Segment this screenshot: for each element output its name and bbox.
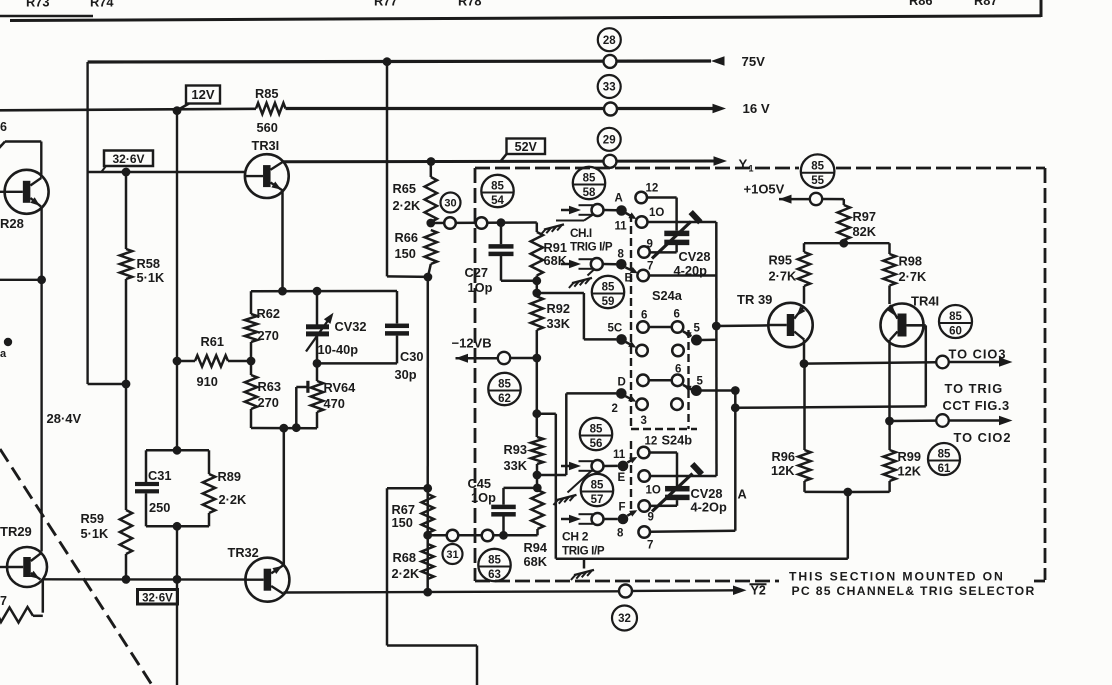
svg-text:C45: C45	[468, 476, 491, 491]
resistor R93	[531, 437, 543, 464]
resistor R66	[425, 230, 437, 264]
svg-text:12K: 12K	[771, 463, 795, 478]
svg-text:56: 56	[590, 438, 603, 450]
resistor R58	[120, 249, 132, 279]
wire 10a	[648, 221, 717, 224]
wire R96 bottom	[803, 481, 806, 492]
svg-text:TRIG I/P: TRIG I/P	[570, 241, 613, 254]
svg-text:TO CIO3: TO CIO3	[949, 347, 1007, 362]
svg-text:TO CIO2: TO CIO2	[954, 430, 1012, 445]
svg-text:85: 85	[491, 181, 504, 193]
svg-text:R92: R92	[547, 301, 570, 316]
resistor R63	[245, 375, 257, 409]
transistor TR29	[7, 547, 47, 587]
wire bottom jog down	[476, 646, 479, 685]
svg-text:11: 11	[615, 221, 628, 233]
svg-text:85: 85	[938, 449, 951, 461]
TR29 collector diagonal	[31, 553, 41, 561]
svg-text:CH.I: CH.I	[570, 226, 592, 240]
svg-text:C30: C30	[400, 349, 423, 364]
wire R98 top	[888, 243, 891, 254]
arrow +105V (pointing left)	[779, 195, 792, 204]
section border top-left	[0, 15, 93, 18]
resistor R62	[245, 314, 257, 342]
svg-text:82K: 82K	[853, 224, 877, 239]
svg-text:5: 5	[694, 323, 701, 335]
capacitor C30 plates	[385, 324, 409, 329]
dashed box bottom edge	[475, 580, 779, 583]
svg-text:RV64: RV64	[324, 380, 357, 395]
RV64 tap bar	[306, 381, 309, 393]
svg-text:12: 12	[645, 436, 658, 448]
circled 29	[598, 128, 621, 151]
wire 32.6V line to TR31 base	[88, 171, 245, 173]
svg-text:2·2K: 2·2K	[392, 566, 420, 581]
wire C31 box top	[146, 449, 209, 452]
svg-text:63: 63	[488, 569, 501, 581]
svg-text:TR29: TR29	[0, 524, 32, 539]
junction bus B top	[731, 386, 740, 395]
CH1 input arrow A	[561, 209, 569, 212]
circled 32	[612, 606, 637, 631]
svg-text:CV32: CV32	[335, 319, 367, 334]
svg-text:R98: R98	[899, 254, 922, 269]
svg-text:TR 39: TR 39	[737, 292, 772, 307]
svg-text:R89: R89	[218, 469, 241, 484]
wire R94 bottom	[536, 529, 539, 535]
circled 31	[443, 544, 463, 564]
svg-text:TR3I: TR3I	[252, 138, 280, 153]
wire stub y280	[0, 279, 42, 281]
wire TR28 collector	[40, 142, 42, 178]
svg-text:33K: 33K	[547, 316, 571, 331]
connector circle 30a	[444, 217, 456, 229]
TR32 emitter arrowhead	[272, 566, 282, 574]
TR31 emitter diagonal	[271, 183, 283, 191]
section border right vertical	[1040, 0, 1043, 17]
svg-text:61: 61	[938, 463, 951, 475]
resistor R94	[531, 490, 543, 529]
TR41 collector diagonal	[890, 332, 898, 340]
svg-text:R28: R28	[0, 216, 24, 231]
wire 7b	[650, 531, 735, 532]
wire R66 bottom	[428, 264, 431, 277]
capacitor C45 plates	[491, 505, 516, 510]
svg-text:5C: 5C	[608, 323, 623, 335]
svg-text:11: 11	[613, 449, 626, 461]
svg-text:F: F	[619, 502, 626, 514]
ref circle 85/58	[573, 167, 605, 199]
svg-text:R63: R63	[258, 379, 281, 394]
svg-text:E: E	[618, 472, 626, 484]
TR32 emitter diagonal (up)	[271, 565, 283, 573]
svg-text:1O: 1O	[649, 207, 664, 219]
svg-text:75V: 75V	[742, 54, 766, 69]
switch circle row2 left	[636, 345, 648, 357]
svg-text:R61: R61	[201, 334, 224, 349]
svg-text:7: 7	[647, 540, 653, 552]
svg-text:32·6V: 32·6V	[142, 592, 173, 604]
switch circle 7b	[638, 526, 650, 538]
junction +105 rail	[839, 239, 848, 248]
terminal circle TO C102	[936, 414, 949, 427]
svg-text:2·2K: 2·2K	[219, 492, 247, 507]
junction y428 TR32 emitter	[279, 424, 288, 433]
wire E-feed right	[537, 412, 556, 415]
circled 30	[441, 193, 461, 213]
svg-text:57: 57	[591, 494, 604, 506]
wiper 5b	[683, 385, 691, 390]
wire TO C102 right	[949, 419, 1000, 422]
svg-text:6: 6	[675, 364, 681, 376]
wire R97 bottom	[843, 240, 846, 243]
switch circle 7a	[637, 270, 649, 282]
wire D-feed up	[565, 393, 568, 475]
transistor TR31	[245, 154, 289, 198]
junction y291 CV32	[313, 287, 322, 296]
switch circle row3 right	[672, 375, 684, 387]
wiper F-9	[627, 512, 635, 516]
svg-text:55: 55	[811, 175, 824, 187]
svg-text:60: 60	[949, 326, 962, 338]
CH1 ground B wire	[588, 270, 595, 276]
wire R91 top corner	[536, 223, 539, 233]
junction emitter-resistor return	[843, 488, 852, 497]
wire C31 box bottom	[146, 525, 209, 528]
voltage label 32.6V box	[104, 151, 153, 167]
wire 10b	[650, 475, 717, 478]
wire x177 lower drop	[176, 526, 178, 685]
svg-text:R99: R99	[898, 449, 921, 464]
junction R93 bottom	[533, 471, 542, 480]
junction R66 bottom	[424, 273, 433, 282]
CH1 input circle A	[592, 204, 604, 216]
switch circle 12a	[635, 192, 647, 204]
ref circle 85/61	[928, 443, 960, 475]
wire 12a	[647, 196, 677, 199]
chain line S24a right	[687, 330, 689, 429]
wire E link	[604, 465, 618, 468]
wire connector 30 line	[431, 221, 537, 224]
wire B link	[603, 263, 616, 266]
junction y291 TR31 emitter	[278, 287, 287, 296]
switch circle 9b	[638, 500, 650, 512]
wire R62 top	[250, 291, 253, 314]
svg-text:R85: R85	[255, 86, 278, 101]
svg-text:12K: 12K	[898, 464, 922, 479]
CH1 input screen lines A	[579, 204, 594, 206]
svg-text:6: 6	[0, 120, 7, 134]
svg-text:R59: R59	[81, 511, 104, 526]
svg-text:58: 58	[583, 187, 596, 199]
wire F link	[604, 518, 618, 521]
svg-text:32: 32	[618, 613, 631, 625]
CH2 input circle E	[592, 460, 604, 472]
wire TR29 emitter drop	[42, 579, 45, 612]
svg-text:10-40p: 10-40p	[318, 342, 359, 357]
wire C feed	[537, 292, 584, 295]
switch circle 10a	[636, 216, 648, 228]
capacitor C27 plates	[489, 244, 514, 249]
resistor stub top-left (cut)	[0, 141, 5, 147]
junction 12V rail	[173, 106, 182, 115]
contact dot C	[616, 334, 627, 345]
wire R61 left	[177, 360, 195, 363]
svg-text:5·1K: 5·1K	[137, 270, 165, 285]
wire TO C103	[804, 362, 936, 363]
svg-text:28: 28	[603, 35, 616, 47]
svg-text:2·2K: 2·2K	[393, 198, 421, 213]
svg-text:85: 85	[591, 480, 604, 492]
wire R58 top	[125, 172, 128, 249]
resistor R85	[256, 103, 286, 114]
svg-text:CH 2: CH 2	[562, 530, 589, 544]
terminal circle 33 on 16V rail	[604, 103, 617, 116]
wire TO C103 right	[949, 361, 1000, 364]
junction TR39 collector node	[800, 359, 809, 368]
contact dot E	[618, 461, 629, 472]
junction Y2 line at R68	[423, 588, 432, 597]
junction R65-R66 connector node	[426, 219, 435, 228]
wire 52V-Y1 rail	[284, 160, 715, 164]
circled 33	[598, 75, 621, 98]
svg-text:−12VB: −12VB	[452, 336, 492, 351]
resistor R92	[531, 297, 543, 331]
wire 5a link	[702, 339, 717, 342]
wiper D	[626, 396, 634, 400]
contact dot 5b	[691, 385, 702, 396]
wire 16V rail right of R85	[286, 107, 714, 110]
transistor TR39	[768, 303, 812, 347]
svg-text:8: 8	[618, 249, 625, 261]
wire 75V drop corner to R58 chain	[88, 383, 126, 385]
svg-text:THIS SECTION MOUNTED ON: THIS SECTION MOUNTED ON	[789, 570, 1005, 584]
svg-text:3: 3	[641, 415, 647, 427]
svg-text:R93: R93	[504, 442, 527, 457]
svg-text:TO TRIG: TO TRIG	[945, 381, 1004, 396]
svg-text:R96: R96	[772, 449, 795, 464]
junction 32.6V line at R58	[122, 168, 131, 177]
wiper 5a	[683, 331, 692, 336]
svg-text:30: 30	[444, 198, 456, 210]
wire bottom return line	[556, 557, 848, 560]
wire E-feed down	[555, 414, 558, 559]
dashed box right edge	[1044, 168, 1047, 580]
svg-text:B: B	[625, 273, 633, 285]
svg-text:R68: R68	[393, 550, 416, 565]
junction left rail y280	[37, 275, 46, 284]
wire CV32 bottom	[316, 336, 319, 381]
wire -12VB left	[456, 357, 499, 360]
connector circle 31b	[482, 530, 494, 542]
wire C30 link	[317, 362, 397, 365]
wire R96 top	[803, 364, 806, 450]
wire +105V right	[822, 198, 844, 201]
contact dot A	[616, 205, 627, 216]
CH2 input circle F	[592, 513, 604, 525]
svg-text:33: 33	[603, 82, 616, 94]
junction bus B TR41 base	[731, 403, 740, 412]
CH1 input circle B	[591, 258, 603, 270]
wire 12V rail left of R85	[0, 109, 256, 111]
svg-text:33K: 33K	[504, 458, 528, 473]
wire R67 branch corner	[387, 487, 428, 490]
svg-text:16 V: 16 V	[743, 101, 770, 116]
svg-text:1O: 1O	[646, 485, 661, 497]
svg-text:2·7K: 2·7K	[769, 269, 797, 284]
arrow -12VB (pointing left)	[456, 354, 469, 363]
wire C30 top	[396, 291, 399, 323]
switch circle 12b	[638, 447, 650, 459]
svg-text:250: 250	[149, 500, 170, 515]
svg-text:6: 6	[641, 310, 647, 322]
section border top	[10, 16, 1041, 21]
junction TR41 emitter node	[885, 417, 894, 426]
RV64 tap wire	[296, 386, 308, 389]
svg-text:150: 150	[395, 246, 416, 261]
wire C31 left lower	[145, 494, 148, 527]
wire x428 long drop	[426, 277, 429, 592]
junction bus TR39 base	[712, 322, 721, 331]
svg-text:D: D	[618, 377, 626, 389]
circled 28	[598, 28, 621, 51]
wire TO C102	[890, 419, 937, 422]
voltage label 32.6V box lower	[138, 590, 178, 605]
wire x387 lower drop	[386, 488, 389, 645]
switch circle row2 right	[672, 345, 684, 357]
voltage label 12V box	[186, 86, 220, 104]
wire 5b link	[702, 389, 736, 392]
svg-text:1Op: 1Op	[468, 280, 493, 295]
terminal circle +105V	[810, 193, 822, 205]
terminal circle 28 on 75V rail	[604, 55, 617, 68]
terminal circle 32 on Y2 line	[619, 585, 632, 598]
svg-text:270: 270	[258, 395, 279, 410]
wire 12b	[650, 451, 678, 454]
svg-text:a: a	[0, 348, 7, 360]
ref circle 85/56	[580, 418, 612, 450]
wire 7a	[649, 274, 716, 277]
wire R92-R93 link	[536, 358, 539, 437]
wire x387 upper drop	[386, 62, 389, 277]
svg-text:C31: C31	[148, 468, 171, 483]
switch circle 10b	[638, 470, 650, 482]
capacitor C31 plates	[135, 482, 159, 486]
connector circle 31a	[447, 530, 459, 542]
svg-text:6: 6	[674, 309, 680, 321]
svg-text:2·7K: 2·7K	[899, 269, 927, 284]
switch circle 9a	[638, 246, 650, 258]
TR28 collector diagonal	[30, 178, 41, 186]
resistor R59	[120, 510, 132, 554]
svg-text:R65: R65	[393, 181, 416, 196]
ref circle 85/59	[592, 276, 624, 308]
wire CV28a bottom	[675, 245, 678, 253]
junction C31 top	[173, 446, 182, 455]
transistor TR32	[245, 558, 289, 602]
CV28b trimmer arrow	[652, 474, 693, 512]
junction R91 bottom	[532, 276, 541, 285]
junction x177 at R61	[173, 357, 182, 366]
resistor R96	[798, 450, 810, 481]
ref circle 85/62	[488, 373, 520, 405]
terminal circle TO C103	[936, 356, 949, 369]
svg-text:PC 85 CHANNEL& TRIG SELECTOR: PC 85 CHANNEL& TRIG SELECTOR	[792, 584, 1036, 598]
wire D-feed to contact	[566, 392, 616, 395]
svg-text:Y2: Y2	[751, 584, 766, 598]
CH2 input arrow F	[561, 518, 569, 521]
svg-text:29: 29	[603, 135, 616, 147]
svg-text:A: A	[615, 193, 623, 205]
svg-text:R74: R74	[90, 0, 114, 10]
CH2 input screen lines F	[579, 513, 594, 515]
arrow TO C103	[999, 357, 1013, 367]
mark dot left	[4, 338, 12, 346]
contact dot D	[616, 388, 627, 399]
svg-text:470: 470	[324, 396, 345, 411]
junction C27 top	[497, 218, 506, 227]
wire C45 top link	[504, 487, 538, 490]
arrow Y2 (pointing right)	[733, 585, 747, 595]
dashed box left edge	[474, 168, 477, 581]
ref circle 85/60	[939, 305, 972, 338]
svg-text:5·1K: 5·1K	[81, 526, 109, 541]
wire row3 link	[649, 379, 672, 382]
junction CV32-C30 bottom	[313, 359, 322, 368]
wire bus B	[734, 391, 737, 531]
svg-text:R95: R95	[769, 253, 792, 268]
svg-text:R73: R73	[26, 0, 49, 10]
wire C31 left upper	[145, 450, 148, 482]
terminal circle 29 on Y1 rail	[604, 155, 617, 168]
junction R67-R68 connector node	[423, 531, 432, 540]
wire C27 top	[500, 223, 503, 245]
CH1 ground A	[544, 224, 564, 229]
switch circle row3 left	[637, 375, 649, 387]
wiper A-10	[626, 213, 634, 218]
resistor R98	[883, 254, 895, 286]
junction x177 base line	[173, 575, 182, 584]
switch circle row4 left	[636, 399, 648, 411]
svg-text:R86: R86	[909, 0, 932, 8]
wire R91-R92 link	[536, 276, 539, 297]
CV28a trimmer arrow	[652, 222, 691, 259]
svg-text:TRIG I/P: TRIG I/P	[562, 545, 605, 558]
svg-text:9: 9	[648, 512, 654, 524]
wire D-feed right	[537, 474, 566, 477]
wire TR32 collector to Y2	[284, 591, 620, 592]
TR29 emitter diagonal	[31, 573, 41, 580]
svg-text:+1O5V: +1O5V	[744, 182, 785, 197]
svg-text:12V: 12V	[191, 87, 214, 102]
junction base line at R59	[122, 575, 131, 584]
ref circle 85/57	[581, 474, 613, 506]
svg-text:4-2Op: 4-2Op	[691, 500, 727, 515]
junction C45 bottom	[499, 531, 508, 540]
CH2 input screen lines E	[579, 460, 594, 462]
TR39 emitter arrowhead PNP	[797, 307, 806, 316]
wire +105V left	[779, 198, 810, 201]
wire R93 bottom	[536, 464, 539, 490]
wire C45 bottom	[502, 517, 505, 536]
wire left rail to TR28 emitter	[40, 207, 42, 552]
junction on 75V rail at R66 branch	[383, 57, 392, 66]
wire TR41 collector down	[888, 340, 891, 421]
svg-text:R66: R66	[395, 230, 418, 245]
junction -12VB node	[532, 354, 541, 363]
chain line S24a left	[630, 214, 632, 430]
wire bus to TR39	[715, 222, 718, 476]
